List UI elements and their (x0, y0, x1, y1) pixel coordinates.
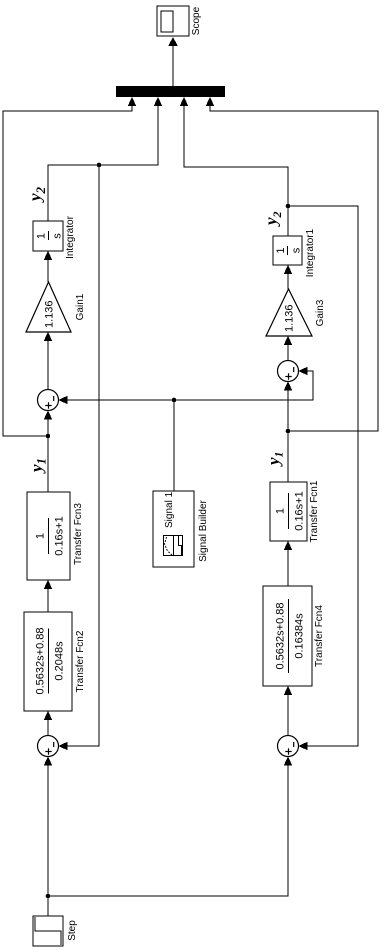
wire Transfer Fcn4 to Transfer Fcn1 (284, 541, 293, 586)
svg-text:s: s (52, 233, 64, 239)
svg-text:s: s (291, 247, 303, 253)
svg-text:Transfer Fcn3: Transfer Fcn3 (73, 503, 84, 565)
sum signs Sum2 (45, 396, 53, 409)
svg-text:0.5632s+0.88: 0.5632s+0.88 (275, 603, 287, 670)
node B junction y1 left (46, 434, 51, 439)
svg-text:Scope: Scope (191, 6, 202, 35)
node D junction signal branch (172, 398, 177, 403)
scope block Scope (157, 6, 189, 36)
wire node E to Mux input 4 (y1 right to scope) (206, 97, 378, 431)
svg-text:1: 1 (275, 247, 287, 253)
svg-text:Integrator1: Integrator1 (305, 228, 316, 277)
wire feedback node C to Sum1 minus input (59, 165, 100, 750)
value Transfer Fcn3 (35, 516, 66, 555)
transfer function Transfer Fcn2 (24, 612, 72, 711)
value Integrator1 (275, 247, 303, 253)
svg-text:y2: y2 (26, 186, 49, 203)
wire Mux to Scope (168, 37, 178, 86)
svg-text:Integrator: Integrator (65, 215, 76, 258)
svg-text:1: 1 (36, 233, 48, 239)
value Transfer Fcn4 (275, 603, 306, 670)
svg-text:y2: y2 (262, 211, 285, 227)
sum junction Sum1 (38, 736, 59, 757)
svg-text:0.16384s: 0.16384s (294, 613, 306, 659)
svg-text:1: 1 (275, 508, 287, 514)
integrator block Integrator1 (273, 236, 302, 265)
svg-text:y1: y1 (264, 451, 286, 467)
wire node A to Sum4 (48, 757, 292, 897)
wire node D to Sum3 minus input (174, 367, 313, 400)
node C junction feedback left (97, 163, 102, 168)
svg-text:y1: y1 (27, 458, 49, 474)
svg-text:Signal Builder: Signal Builder (198, 499, 209, 561)
svg-text:Step: Step (67, 920, 78, 941)
gain Gain3 (266, 289, 312, 336)
wire feedback node F to Sum4 minus input (288, 206, 358, 750)
svg-text:Signal 1: Signal 1 (164, 491, 175, 528)
sum signs Sum3 (285, 367, 293, 380)
wire node E to Sum3 (284, 382, 293, 432)
node E junction y1 right (286, 429, 291, 434)
wire node B to Mux input 1 (y1 left to scope) (3, 97, 136, 436)
svg-text:Transfer Fcn1: Transfer Fcn1 (309, 480, 320, 542)
wire node D to Sum2 minus input (59, 396, 175, 405)
svg-text:0.16s+1: 0.16s+1 (54, 516, 66, 555)
svg-text:Gain1: Gain1 (75, 293, 86, 320)
transfer function Transfer Fcn3 (27, 492, 70, 580)
sum signs Sum1 (45, 742, 53, 755)
wire Transfer Fcn3 to node B (y1 left) (47, 436, 49, 492)
svg-text:0.5632s+0.88: 0.5632s+0.88 (35, 628, 47, 695)
gain Gain1 (26, 282, 71, 332)
wire Transfer Fcn1 to node E (y1 right) (287, 431, 289, 482)
sum junction Sum2 (38, 390, 59, 411)
value Transfer Fcn2 (35, 628, 66, 695)
wire Sum2 to Gain1 (44, 332, 53, 390)
node F junction feedback right (286, 204, 291, 209)
svg-text:0.16s+1: 0.16s+1 (294, 491, 306, 530)
node A junction (46, 894, 51, 899)
transfer function Transfer Fcn4 (263, 586, 312, 686)
svg-text:1.136: 1.136 (44, 300, 56, 328)
wire Gain3 to Integrator1 (284, 265, 293, 289)
wire Sum4 to Transfer Fcn4 (284, 686, 293, 736)
svg-text:1: 1 (35, 533, 47, 539)
wire Integrator1 to Mux input 3 (y2 right) (180, 97, 288, 236)
svg-text:1.136: 1.136 (284, 304, 296, 332)
svg-text:Gain3: Gain3 (315, 299, 326, 326)
signal builder block Signal Builder (153, 491, 194, 567)
wire Step output to node A (47, 896, 49, 916)
sum junction Sum3 (278, 361, 299, 382)
mux Mux (116, 86, 225, 97)
wire Signal Builder to node D (173, 400, 175, 491)
transfer function Transfer Fcn1 (270, 482, 307, 541)
wire Sum1 to Transfer Fcn2 (44, 711, 53, 736)
svg-text:0.2048s: 0.2048s (54, 641, 66, 681)
wire Gain1 to Integrator (44, 251, 53, 282)
wire Sum3 to Gain3 (284, 336, 293, 361)
wire Integrator to Mux input 2 (y2 left) (48, 97, 162, 221)
step source Step (33, 916, 63, 946)
wire node A to Sum1 (44, 757, 53, 897)
sum junction Sum4 (278, 736, 299, 757)
wire Transfer Fcn2 to Transfer Fcn3 (44, 580, 53, 612)
wire node B to Sum2 (44, 411, 53, 437)
integrator block Integrator (33, 221, 63, 251)
value Transfer Fcn1 (275, 491, 306, 530)
value Integrator (36, 233, 64, 239)
sum signs Sum4 (285, 742, 293, 755)
svg-text:Transfer Fcn2: Transfer Fcn2 (75, 630, 86, 692)
svg-text:Transfer Fcn4: Transfer Fcn4 (314, 605, 325, 667)
